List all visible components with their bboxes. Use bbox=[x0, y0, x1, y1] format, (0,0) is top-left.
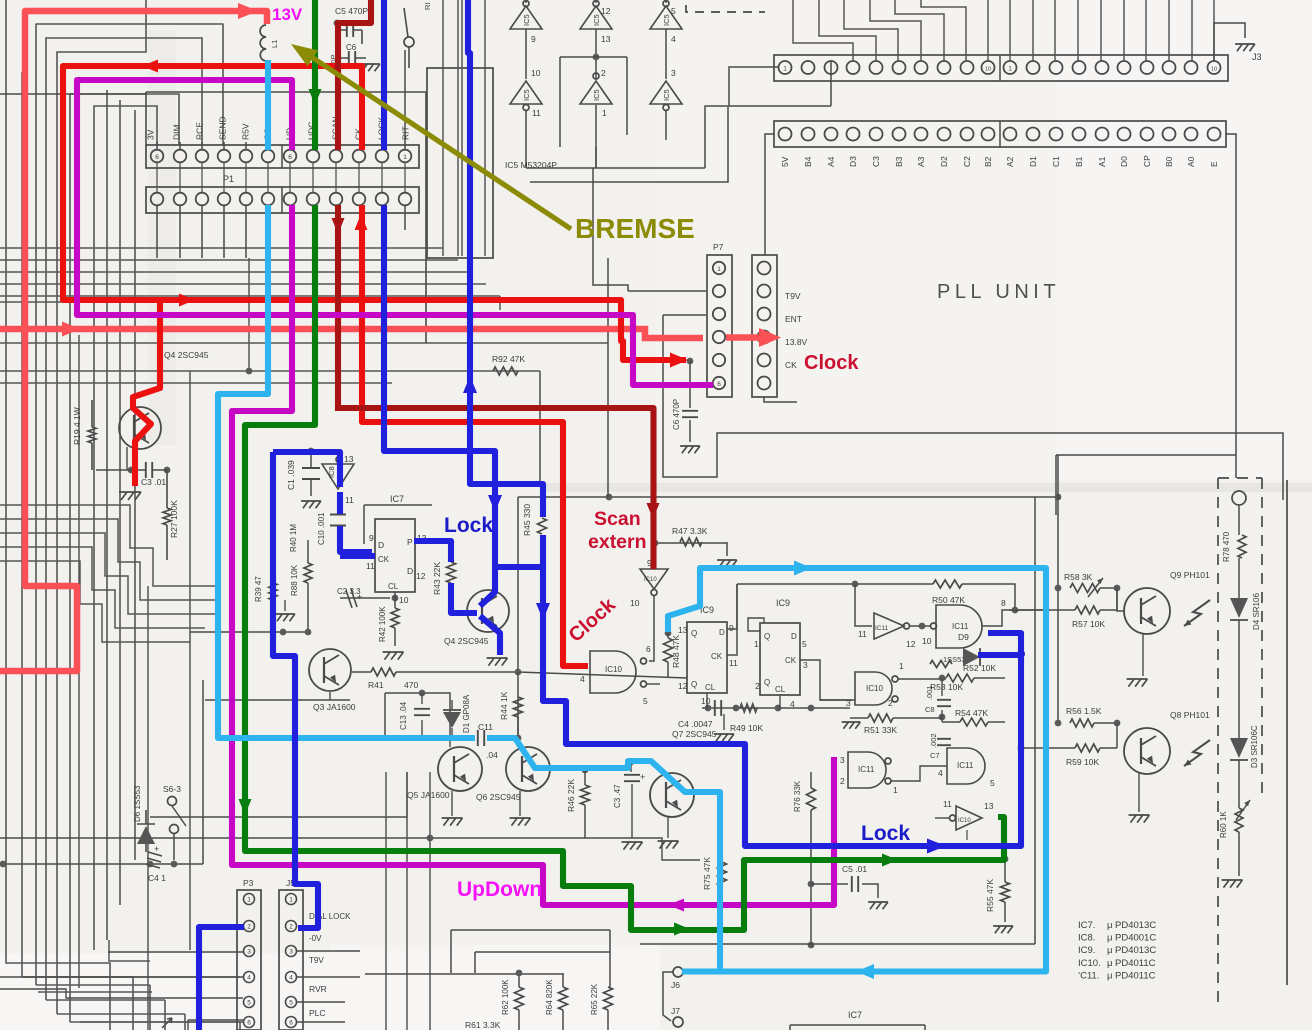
svg-text:A3: A3 bbox=[916, 156, 926, 167]
svg-text:9: 9 bbox=[729, 623, 734, 633]
svg-text:C6 470P: C6 470P bbox=[672, 399, 681, 430]
svg-text:R42 100K: R42 100K bbox=[378, 606, 387, 642]
svg-text:C1: C1 bbox=[1051, 156, 1061, 167]
svg-text:Q: Q bbox=[764, 632, 770, 641]
svg-text:IC10: IC10 bbox=[958, 818, 971, 824]
svg-text:J7: J7 bbox=[671, 1006, 680, 1016]
svg-text:IC8.: IC8. bbox=[1078, 933, 1095, 944]
svg-text:PLL UNIT: PLL UNIT bbox=[937, 281, 1060, 303]
svg-text:1: 1 bbox=[754, 639, 759, 649]
svg-text:D9: D9 bbox=[958, 632, 969, 642]
svg-text:RI: RI bbox=[423, 3, 432, 11]
svg-text:P7: P7 bbox=[713, 242, 724, 252]
svg-text:10: 10 bbox=[1211, 66, 1217, 72]
svg-text:T9V: T9V bbox=[309, 956, 324, 965]
svg-text:Lock: Lock bbox=[444, 514, 493, 537]
svg-text:IC9: IC9 bbox=[776, 598, 790, 608]
svg-text:.04: .04 bbox=[486, 750, 498, 760]
svg-text:3: 3 bbox=[247, 949, 251, 956]
svg-text:6: 6 bbox=[155, 154, 159, 161]
svg-text:Scan: Scan bbox=[594, 508, 641, 530]
svg-text:R44 1K: R44 1K bbox=[499, 691, 509, 720]
svg-text:1: 1 bbox=[247, 897, 251, 904]
svg-text:DIM: DIM bbox=[172, 124, 182, 140]
svg-text:4: 4 bbox=[938, 768, 943, 778]
svg-text:5V: 5V bbox=[780, 156, 790, 167]
svg-text:1: 1 bbox=[783, 65, 787, 72]
svg-text:R76 33K: R76 33K bbox=[793, 780, 802, 812]
svg-text:2: 2 bbox=[755, 681, 760, 691]
svg-text:R60 1K: R60 1K bbox=[1219, 811, 1228, 838]
svg-text:Q9 PH101: Q9 PH101 bbox=[1170, 570, 1210, 580]
svg-text:S6-3: S6-3 bbox=[163, 784, 181, 794]
svg-text:4: 4 bbox=[671, 34, 676, 44]
svg-text:R49 10K: R49 10K bbox=[730, 723, 763, 733]
svg-text:12: 12 bbox=[416, 571, 426, 581]
svg-text:CL: CL bbox=[775, 685, 786, 694]
svg-text:Q: Q bbox=[764, 678, 770, 687]
svg-text:5: 5 bbox=[802, 639, 807, 649]
svg-text:P3: P3 bbox=[243, 878, 254, 888]
svg-text:P1: P1 bbox=[223, 174, 234, 184]
svg-text:2: 2 bbox=[601, 68, 606, 78]
svg-text:4: 4 bbox=[289, 975, 293, 982]
svg-text:IC11: IC11 bbox=[957, 761, 974, 770]
svg-text:μ: μ bbox=[1107, 970, 1112, 981]
svg-text:B0: B0 bbox=[1164, 156, 1174, 167]
svg-text:11: 11 bbox=[532, 108, 541, 118]
svg-text:5: 5 bbox=[289, 1000, 293, 1007]
svg-text:R40 1M: R40 1M bbox=[289, 524, 298, 552]
svg-text:PD4013C: PD4013C bbox=[1115, 920, 1156, 931]
svg-text:1: 1 bbox=[893, 785, 898, 795]
svg-text:D0: D0 bbox=[1119, 156, 1129, 167]
svg-text:IC9.: IC9. bbox=[1078, 945, 1095, 956]
svg-text:D1 GP08A: D1 GP08A bbox=[462, 694, 471, 733]
svg-text:D1: D1 bbox=[1028, 156, 1038, 167]
svg-text:IC11: IC11 bbox=[875, 625, 889, 632]
svg-text:4: 4 bbox=[580, 674, 585, 684]
svg-text:IC7: IC7 bbox=[390, 494, 404, 504]
svg-text:D4 SR106: D4 SR106 bbox=[1252, 593, 1261, 630]
svg-text:12: 12 bbox=[601, 6, 611, 16]
svg-text:R65 22K: R65 22K bbox=[590, 983, 599, 1015]
svg-text:R47 3.3K: R47 3.3K bbox=[672, 526, 708, 536]
svg-text:RCE: RCE bbox=[195, 122, 205, 140]
svg-text:2: 2 bbox=[840, 776, 845, 786]
svg-text:.001: .001 bbox=[925, 685, 934, 700]
svg-text:BREMSE: BREMSE bbox=[575, 213, 695, 244]
svg-text:11: 11 bbox=[943, 799, 952, 809]
svg-text:IC10: IC10 bbox=[866, 684, 883, 693]
svg-text:CL: CL bbox=[705, 683, 716, 692]
svg-text:CK: CK bbox=[378, 555, 390, 564]
svg-text:R19 4 1W: R19 4 1W bbox=[72, 407, 82, 445]
svg-text:R48 47K: R48 47K bbox=[671, 635, 681, 668]
svg-text:P: P bbox=[407, 537, 413, 547]
svg-text:CK: CK bbox=[785, 360, 797, 370]
svg-text:10: 10 bbox=[531, 68, 541, 78]
svg-text:C11: C11 bbox=[478, 722, 493, 732]
svg-text:R75 47K: R75 47K bbox=[702, 857, 712, 890]
svg-text:12: 12 bbox=[678, 681, 688, 691]
svg-text:R59 10K: R59 10K bbox=[1066, 757, 1099, 767]
svg-text:Clock: Clock bbox=[804, 352, 859, 374]
svg-text:R41: R41 bbox=[368, 680, 384, 690]
svg-text:CK: CK bbox=[711, 652, 723, 661]
svg-text:R43 22K: R43 22K bbox=[432, 562, 442, 595]
svg-text:IC7.: IC7. bbox=[1078, 920, 1095, 931]
svg-text:RVR: RVR bbox=[309, 984, 327, 994]
svg-text:-0V: -0V bbox=[309, 934, 322, 943]
svg-text:IC5: IC5 bbox=[662, 89, 671, 101]
svg-text:PD4011C: PD4011C bbox=[1115, 970, 1156, 981]
svg-text:RIT: RIT bbox=[401, 126, 411, 140]
svg-text:L1: L1 bbox=[270, 40, 279, 48]
svg-text:IC5: IC5 bbox=[592, 89, 601, 101]
svg-text:D3: D3 bbox=[848, 156, 858, 167]
svg-text:R78 470: R78 470 bbox=[1222, 531, 1231, 562]
svg-text:Q4 2SC945: Q4 2SC945 bbox=[444, 636, 489, 646]
svg-text:3: 3 bbox=[803, 660, 808, 670]
svg-text:3: 3 bbox=[671, 68, 676, 78]
svg-text:ENT: ENT bbox=[785, 314, 802, 324]
svg-text:R53 10K: R53 10K bbox=[930, 682, 963, 692]
svg-text:6: 6 bbox=[717, 381, 721, 388]
svg-text:C5 .01: C5 .01 bbox=[842, 864, 867, 874]
svg-text:10: 10 bbox=[701, 696, 711, 706]
svg-text:D: D bbox=[791, 632, 797, 641]
svg-text:6: 6 bbox=[646, 644, 651, 654]
svg-text:R57 10K: R57 10K bbox=[1072, 619, 1105, 629]
svg-text:10: 10 bbox=[922, 636, 932, 646]
svg-text:C4 1: C4 1 bbox=[148, 873, 166, 883]
svg-text:1: 1 bbox=[403, 154, 407, 161]
svg-text:5: 5 bbox=[990, 778, 995, 788]
svg-text:R45 330: R45 330 bbox=[522, 504, 532, 536]
svg-text:D6 1SS53: D6 1SS53 bbox=[133, 785, 142, 822]
svg-text:IC5: IC5 bbox=[592, 14, 601, 26]
svg-text:Q3 JA1600: Q3 JA1600 bbox=[313, 702, 356, 712]
svg-text:.002: .002 bbox=[929, 733, 938, 748]
svg-text:PD4013C: PD4013C bbox=[1115, 945, 1156, 956]
svg-text:12: 12 bbox=[906, 639, 916, 649]
svg-text:Q4 2SC945: Q4 2SC945 bbox=[164, 350, 209, 360]
svg-text:R27 100K: R27 100K bbox=[169, 500, 179, 538]
svg-text:C7: C7 bbox=[930, 751, 940, 760]
svg-text:3: 3 bbox=[840, 755, 845, 765]
svg-text:10: 10 bbox=[399, 595, 409, 605]
svg-text:J3: J3 bbox=[1252, 52, 1262, 62]
svg-text:C1 .039: C1 .039 bbox=[286, 460, 296, 490]
svg-text:8: 8 bbox=[1001, 598, 1006, 608]
svg-text:T9V: T9V bbox=[785, 291, 801, 301]
svg-text:B2: B2 bbox=[983, 156, 993, 167]
svg-text:6: 6 bbox=[288, 154, 292, 161]
svg-text:B3: B3 bbox=[894, 156, 904, 167]
svg-text:13.8V: 13.8V bbox=[785, 337, 808, 347]
svg-text:2: 2 bbox=[888, 698, 893, 708]
svg-text:D: D bbox=[407, 566, 413, 576]
svg-text:A1: A1 bbox=[1097, 156, 1107, 167]
svg-text:C4 .0047: C4 .0047 bbox=[678, 719, 713, 729]
svg-text:1: 1 bbox=[717, 266, 721, 273]
svg-text:IC10.: IC10. bbox=[1078, 958, 1101, 969]
svg-text:Lock: Lock bbox=[861, 822, 910, 845]
svg-text:11: 11 bbox=[729, 658, 738, 668]
svg-text:E: E bbox=[1209, 161, 1219, 167]
svg-text:Q7 2SC945: Q7 2SC945 bbox=[672, 729, 717, 739]
svg-text:R56 1.5K: R56 1.5K bbox=[1066, 706, 1102, 716]
svg-text:10: 10 bbox=[630, 598, 640, 608]
svg-text:D: D bbox=[719, 628, 725, 637]
svg-text:C13 .04: C13 .04 bbox=[399, 701, 408, 730]
svg-text:+: + bbox=[640, 772, 645, 782]
svg-text:μ: μ bbox=[1107, 945, 1112, 956]
svg-text:R54 47K: R54 47K bbox=[955, 708, 988, 718]
svg-text:C6: C6 bbox=[346, 43, 357, 52]
svg-text:’C11.: ’C11. bbox=[1078, 970, 1099, 981]
svg-text:R39 47: R39 47 bbox=[254, 576, 263, 602]
svg-text:R52 10K: R52 10K bbox=[963, 663, 996, 673]
svg-text:D2: D2 bbox=[939, 156, 949, 167]
svg-text:9: 9 bbox=[369, 533, 374, 543]
svg-text:CP: CP bbox=[1142, 155, 1152, 167]
svg-text:PD4011C: PD4011C bbox=[1115, 958, 1156, 969]
svg-text:R64 820K: R64 820K bbox=[545, 979, 554, 1015]
svg-text:IC11: IC11 bbox=[952, 622, 969, 631]
svg-text:IC11: IC11 bbox=[858, 765, 875, 774]
svg-text:B4: B4 bbox=[803, 156, 813, 167]
svg-text:IC5: IC5 bbox=[662, 14, 671, 26]
svg-text:Q5 JA1600: Q5 JA1600 bbox=[407, 790, 450, 800]
svg-text:extern: extern bbox=[588, 531, 647, 553]
svg-text:R50 47K: R50 47K bbox=[932, 595, 965, 605]
svg-text:μ: μ bbox=[1107, 920, 1112, 931]
svg-text:11: 11 bbox=[366, 561, 375, 571]
svg-text:IC5: IC5 bbox=[522, 14, 531, 26]
svg-text:C3: C3 bbox=[871, 156, 881, 167]
svg-text:11: 11 bbox=[345, 495, 354, 505]
svg-text:13V: 13V bbox=[272, 5, 303, 24]
svg-text:C5 470P: C5 470P bbox=[335, 6, 368, 16]
svg-text:1: 1 bbox=[1008, 65, 1012, 72]
svg-text:1: 1 bbox=[602, 108, 607, 118]
svg-text:PD4001C: PD4001C bbox=[1115, 933, 1156, 944]
svg-text:R88 10K: R88 10K bbox=[290, 564, 299, 596]
svg-text:13: 13 bbox=[344, 454, 354, 464]
svg-text:11: 11 bbox=[858, 629, 867, 639]
svg-text:13: 13 bbox=[984, 801, 994, 811]
svg-text:R55 47K: R55 47K bbox=[985, 879, 995, 912]
svg-text:Q8 PH101: Q8 PH101 bbox=[1170, 710, 1210, 720]
svg-text:13: 13 bbox=[678, 625, 688, 635]
svg-text:C3 .01: C3 .01 bbox=[141, 477, 166, 487]
svg-text:R46 22K: R46 22K bbox=[566, 779, 576, 812]
svg-text:J6: J6 bbox=[671, 980, 680, 990]
svg-text:CL: CL bbox=[388, 582, 399, 591]
svg-text:μ: μ bbox=[1107, 958, 1112, 969]
svg-text:C10 .001: C10 .001 bbox=[317, 512, 326, 545]
svg-text:IC8: IC8 bbox=[327, 466, 336, 478]
svg-text:IC10: IC10 bbox=[644, 577, 657, 583]
svg-text:5: 5 bbox=[247, 1000, 251, 1007]
svg-text:1: 1 bbox=[899, 661, 904, 671]
svg-text:R62 100K: R62 100K bbox=[501, 979, 510, 1015]
svg-text:C2: C2 bbox=[962, 156, 972, 167]
svg-text:A4: A4 bbox=[826, 156, 836, 167]
svg-text:2: 2 bbox=[289, 924, 293, 931]
svg-text:R92 47K: R92 47K bbox=[492, 354, 525, 364]
svg-text:PLC: PLC bbox=[309, 1008, 326, 1018]
svg-text:5: 5 bbox=[671, 6, 676, 16]
svg-text:13: 13 bbox=[601, 34, 611, 44]
svg-text:B1: B1 bbox=[1074, 156, 1084, 167]
svg-text:4: 4 bbox=[247, 975, 251, 982]
svg-text:A0: A0 bbox=[1186, 156, 1196, 167]
svg-text:R5V: R5V bbox=[241, 123, 251, 140]
svg-text:1: 1 bbox=[289, 897, 293, 904]
svg-text:IC7: IC7 bbox=[848, 1010, 862, 1020]
svg-text:+: + bbox=[357, 592, 362, 602]
svg-text:C8: C8 bbox=[925, 705, 935, 714]
svg-text:IC5: IC5 bbox=[522, 89, 531, 101]
svg-text:6: 6 bbox=[289, 1020, 293, 1027]
svg-text:6: 6 bbox=[247, 1020, 251, 1027]
svg-text:A2: A2 bbox=[1005, 156, 1015, 167]
svg-text:μ: μ bbox=[1107, 933, 1112, 944]
svg-text:CK: CK bbox=[785, 656, 797, 665]
svg-text:Q: Q bbox=[691, 680, 697, 689]
svg-text:3: 3 bbox=[289, 949, 293, 956]
svg-text:SEND: SEND bbox=[218, 116, 228, 140]
svg-text:2: 2 bbox=[247, 924, 251, 931]
svg-text:C3 .47: C3 .47 bbox=[613, 784, 622, 808]
svg-text:470: 470 bbox=[404, 680, 418, 690]
svg-text:+: + bbox=[154, 844, 159, 854]
svg-text:9: 9 bbox=[531, 34, 536, 44]
svg-text:Q: Q bbox=[691, 629, 697, 638]
svg-text:3V: 3V bbox=[146, 129, 156, 140]
svg-text:R58 3K: R58 3K bbox=[1064, 572, 1093, 582]
svg-text:UpDown: UpDown bbox=[457, 878, 542, 901]
svg-text:D3 SR106C: D3 SR106C bbox=[1250, 725, 1259, 768]
svg-text:R61 3.3K: R61 3.3K bbox=[465, 1020, 501, 1030]
svg-text:Q6 2SC945: Q6 2SC945 bbox=[476, 792, 521, 802]
svg-text:10: 10 bbox=[985, 66, 991, 72]
svg-text:D: D bbox=[378, 540, 384, 550]
svg-text:5: 5 bbox=[643, 696, 648, 706]
svg-text:IC10: IC10 bbox=[605, 665, 622, 674]
svg-text:R51 33K: R51 33K bbox=[864, 725, 897, 735]
